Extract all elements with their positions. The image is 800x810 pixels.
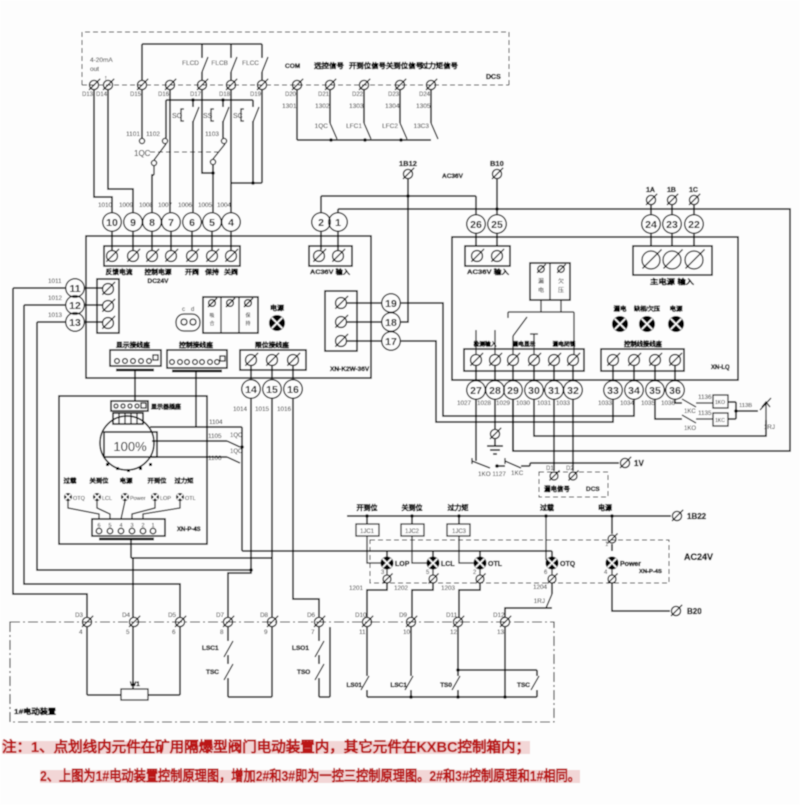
svg-text:1JC3: 1JC3 <box>452 529 467 535</box>
panel common wire down to D4 <box>130 539 132 558</box>
svg-text:限位接线座: 限位接线座 <box>255 340 290 349</box>
switch FLCB <box>230 44 232 58</box>
wire 1QC output to terminal 8 <box>153 166 155 175</box>
svg-text:4: 4 <box>79 629 83 636</box>
LED OTQ <box>64 493 72 501</box>
svg-text:1305: 1305 <box>416 103 431 110</box>
svg-text:AC36V: AC36V <box>442 173 464 180</box>
svg-text:5: 5 <box>126 629 130 636</box>
svg-text:113B: 113B <box>739 403 752 409</box>
switch FLCC <box>261 44 263 58</box>
svg-text:开阀: 开阀 <box>185 267 200 276</box>
svg-text:13C3: 13C3 <box>413 123 429 130</box>
ground symbol <box>494 439 496 446</box>
svg-text:D1: D1 <box>546 466 554 472</box>
svg-text:1033: 1033 <box>556 400 571 407</box>
svg-text:D10: D10 <box>355 612 367 619</box>
svg-text:注：1、点划线内元件在矿用隔爆型阀门电动装置内，其它元件在K: 注：1、点划线内元件在矿用隔爆型阀门电动装置内，其它元件在KXBC控制箱内； <box>2 738 530 756</box>
svg-text:LSC1: LSC1 <box>202 645 219 652</box>
wire 28 to ground <box>494 400 496 429</box>
pushbutton common bus y100 <box>166 99 253 101</box>
svg-text:FLCC: FLCC <box>242 60 259 67</box>
svg-text:1030: 1030 <box>516 400 531 407</box>
svg-text:34: 34 <box>628 385 640 397</box>
svg-text:5: 5 <box>209 217 215 229</box>
LED LCL <box>93 493 101 501</box>
svg-text:LFC2: LFC2 <box>382 123 398 130</box>
wire power lamp to B20 <box>612 583 670 611</box>
svg-text:Power: Power <box>620 561 641 568</box>
svg-text:AC36V 输入: AC36V 输入 <box>310 267 351 276</box>
svg-text:1KC: 1KC <box>684 409 696 415</box>
terminal circle 2 <box>312 213 331 232</box>
wire B10 to circle 25 <box>496 179 498 214</box>
svg-text:1QC: 1QC <box>230 449 243 455</box>
svg-text:1B22: 1B22 <box>687 512 707 521</box>
svg-text:1014: 1014 <box>233 406 248 413</box>
svg-text:控制接线座: 控制接线座 <box>179 340 214 349</box>
terminal D5 <box>175 617 184 626</box>
wire 15 down to D8 <box>271 399 273 617</box>
svg-text:10: 10 <box>106 217 118 229</box>
indication switch TS0 on D11 wire <box>457 627 459 676</box>
terminal D23 <box>395 80 404 89</box>
feedback pot wires from 11 12 13 <box>13 288 87 617</box>
svg-text:1303: 1303 <box>349 103 364 110</box>
svg-text:1: 1 <box>335 217 341 229</box>
terminal circle 19 <box>382 294 401 313</box>
svg-text:1JC1: 1JC1 <box>360 529 375 535</box>
svg-text:2、上图为1#电动装置控制原理图，增加2#和3#即为一控三控: 2、上图为1#电动装置控制原理图，增加2#和3#即为一控三控制原理图。2#和3#… <box>40 767 580 785</box>
svg-text:过力矩: 过力矩 <box>175 477 194 485</box>
LED wires to plug <box>68 501 99 519</box>
svg-text:100%: 100% <box>113 439 147 454</box>
terminal circles 10 9 8 7 6 5 4 <box>103 213 122 232</box>
wire 13 left <box>37 321 65 323</box>
indicator lamp leakage <box>612 316 628 332</box>
svg-text:开到位: 开到位 <box>148 477 167 485</box>
wire 1QC right output to terminal 5 <box>212 165 214 212</box>
actuator dash-dot enclosure 1# motor unit <box>10 622 554 722</box>
svg-text:LCL: LCL <box>102 496 112 502</box>
terminal circle 30 <box>533 366 535 380</box>
switch FLCD <box>201 44 203 58</box>
svg-text:缺相/欠压: 缺相/欠压 <box>634 305 660 313</box>
svg-text:漏电: 漏电 <box>614 305 627 313</box>
svg-text:漏电显示: 漏电显示 <box>513 340 536 348</box>
svg-text:1033: 1033 <box>598 400 613 407</box>
svg-text:19: 19 <box>385 298 397 310</box>
svg-text:1101: 1101 <box>126 131 140 138</box>
terminal circle 36 <box>674 366 676 380</box>
terminal circle 18 <box>382 313 401 332</box>
svg-text:D23: D23 <box>388 92 400 98</box>
meter circle <box>100 416 154 470</box>
relay box 1JC2 <box>410 514 414 518</box>
svg-text:1015: 1015 <box>255 406 270 413</box>
svg-text:保持: 保持 <box>204 267 220 276</box>
svg-text:D13: D13 <box>82 92 94 98</box>
FLC bus wire y44 <box>142 43 262 45</box>
wire 36 to switch 1136 <box>675 400 682 403</box>
terminal circle 33 <box>612 366 614 380</box>
svg-text:XN-K2W-36V: XN-K2W-36V <box>330 366 370 373</box>
terminal D20 <box>292 80 301 89</box>
parallel branch TSC <box>456 668 460 672</box>
lamp LCL <box>427 557 440 570</box>
terminal D11 <box>453 617 462 626</box>
svg-text:1028: 1028 <box>477 400 492 407</box>
terminal D8 <box>267 617 276 626</box>
remote-signal common bus y140 <box>297 139 431 141</box>
wire bus to circle 1 <box>337 209 339 212</box>
svg-text:过力矩: 过力矩 <box>448 503 469 512</box>
terminal D16 <box>165 80 174 89</box>
terminal D3 <box>82 617 91 626</box>
svg-text:1029: 1029 <box>496 400 511 407</box>
terminal D22 <box>359 80 368 89</box>
terminal B20 <box>671 606 680 615</box>
junction to relay coil 1RJ <box>735 402 737 419</box>
svg-text:1RJ: 1RJ <box>534 598 545 605</box>
svg-text:电源: 电源 <box>670 305 683 313</box>
svg-text:1KO: 1KO <box>684 426 696 432</box>
wire D17 joins terminal 5 <box>202 90 213 173</box>
svg-text:12: 12 <box>450 629 458 636</box>
AC36V input block right <box>475 234 477 246</box>
wire 12 left <box>24 304 65 306</box>
svg-text:1203: 1203 <box>441 585 456 592</box>
svg-text:1106: 1106 <box>208 455 222 462</box>
svg-text:1V: 1V <box>634 459 644 468</box>
svg-text:11: 11 <box>359 629 366 636</box>
svg-text:8: 8 <box>149 217 155 229</box>
terminal D4 <box>129 617 138 626</box>
panel cable line <box>99 538 154 540</box>
svg-text:XN-P-4S: XN-P-4S <box>639 569 662 575</box>
1QC common wire down to lamp rail <box>241 427 243 551</box>
AC36V bus L1 y196 <box>321 195 476 197</box>
feed 1JC3 to lamp OTL <box>459 536 474 563</box>
wire 35 to switch 1135 <box>655 400 682 419</box>
svg-text:7: 7 <box>311 629 315 636</box>
svg-text:6: 6 <box>189 217 195 229</box>
svg-text:1KO: 1KO <box>715 400 725 406</box>
svg-text:LSO1: LSO1 <box>292 645 309 652</box>
left terminal strip 3pos <box>97 279 119 333</box>
indicator lamp phase <box>639 316 655 332</box>
terminal circle 29 <box>512 366 514 380</box>
svg-text:关到位: 关到位 <box>402 503 423 512</box>
svg-text:远控信号: 远控信号 <box>314 61 344 70</box>
note underlay shading <box>2 741 530 754</box>
terminal D10 <box>362 617 371 626</box>
pushbutton SS <box>222 100 224 107</box>
svg-text:漏: 漏 <box>538 277 545 285</box>
svg-text:开到位: 开到位 <box>357 503 378 512</box>
svg-text:1KC: 1KC <box>511 470 524 477</box>
terminal circle 16 <box>284 380 303 399</box>
svg-text:D16: D16 <box>158 92 170 98</box>
svg-text:D11: D11 <box>446 612 458 619</box>
relay box 1JC1 <box>365 514 369 518</box>
wire 16 down to D6 <box>293 399 319 617</box>
svg-text:欠: 欠 <box>558 277 565 285</box>
wire D18 to terminal 4 <box>230 90 232 212</box>
switch 1QC remote <box>329 90 331 123</box>
svg-text:out: out <box>90 66 99 73</box>
svg-text:关到位信号: 关到位信号 <box>386 61 423 70</box>
terminal circle 31 <box>553 366 555 380</box>
svg-text:FLCB: FLCB <box>211 60 228 67</box>
wire 29 to big loop - drawn above <box>512 400 514 451</box>
terminal D6 <box>314 617 323 626</box>
svg-text:电: 电 <box>538 286 545 294</box>
svg-text:FLCD: FLCD <box>182 60 199 67</box>
svg-text:压: 压 <box>558 287 565 294</box>
wire bus to circle 2 <box>320 196 322 212</box>
feed 1JC2 to lamp LCL <box>412 536 427 563</box>
svg-text:D21: D21 <box>318 92 330 98</box>
svg-text:W1: W1 <box>130 681 140 688</box>
svg-text:1006: 1006 <box>178 202 193 209</box>
svg-text:1QC: 1QC <box>134 149 151 158</box>
svg-text:TS0: TS0 <box>440 682 452 689</box>
svg-text:D8: D8 <box>260 612 269 619</box>
terminal circle 22 <box>693 205 695 214</box>
leakage relay contact internals <box>475 330 477 354</box>
svg-text:1011: 1011 <box>48 278 62 285</box>
wire D13 to terminal 10 <box>94 90 112 212</box>
svg-text:11: 11 <box>69 283 80 295</box>
svg-text:1027: 1027 <box>457 400 472 407</box>
svg-text:14: 14 <box>245 384 257 396</box>
terminal circle 35 <box>654 366 656 380</box>
svg-text:1136: 1136 <box>698 394 712 401</box>
svg-text:4-20mA: 4-20mA <box>90 57 113 64</box>
svg-text:控制线接线座: 控制线接线座 <box>624 339 662 348</box>
svg-text:持: 持 <box>246 320 251 327</box>
svg-text:D22: D22 <box>352 92 364 98</box>
svg-text:1201: 1201 <box>349 585 364 592</box>
svg-text:D2: D2 <box>566 466 574 472</box>
svg-text:1007: 1007 <box>158 202 173 209</box>
svg-text:D3: D3 <box>75 612 84 619</box>
svg-text:18: 18 <box>385 317 397 329</box>
svg-text:DC24V: DC24V <box>148 278 170 285</box>
bus y558 to D8 wire <box>131 557 272 559</box>
svg-text:1036: 1036 <box>661 400 676 407</box>
svg-text:漏电信号: 漏电信号 <box>544 484 571 493</box>
svg-text:OTL: OTL <box>185 496 196 502</box>
pushbutton SO <box>192 100 194 107</box>
svg-text:LS01: LS01 <box>346 682 362 689</box>
svg-text:27: 27 <box>470 385 482 397</box>
svg-text:1012: 1012 <box>48 295 63 302</box>
display plug lower <box>113 413 143 424</box>
svg-text:1135: 1135 <box>698 410 712 417</box>
svg-text:9: 9 <box>264 629 268 636</box>
svg-text:DCS: DCS <box>586 486 600 493</box>
terminal circle 24 <box>650 205 652 214</box>
terminal circle 1 <box>329 213 348 232</box>
svg-text:1013: 1013 <box>48 312 63 319</box>
terminal D18 <box>226 80 235 89</box>
svg-text:1035: 1035 <box>641 400 656 407</box>
svg-text:控制电源: 控制电源 <box>145 267 173 276</box>
terminal circle 26 <box>467 215 486 234</box>
svg-text:COM: COM <box>285 63 300 70</box>
svg-text:1004: 1004 <box>217 202 232 209</box>
svg-text:1KC: 1KC <box>715 418 725 424</box>
feed overload to lamp OTQ <box>544 514 548 518</box>
svg-text:电源: 电源 <box>120 477 133 485</box>
svg-text:DCS: DCS <box>486 74 501 81</box>
switch 1KO 1127 and 1KC to 1V <box>471 458 473 464</box>
svg-text:D15: D15 <box>130 92 142 98</box>
svg-text:Power: Power <box>130 496 146 502</box>
svg-text:1034: 1034 <box>620 400 635 407</box>
LED LOP <box>151 493 159 501</box>
terminal D7 <box>223 617 232 626</box>
controller box XN-K2W-36V <box>86 236 371 378</box>
svg-text:LCL: LCL <box>441 561 455 568</box>
indication switch LSC1 on D9 wire <box>410 627 412 676</box>
terminal D14 <box>103 80 112 89</box>
svg-text:12: 12 <box>69 300 81 312</box>
terminal circle 14 <box>242 380 261 399</box>
svg-text:4: 4 <box>228 217 234 229</box>
right terminal strip 3pos <box>325 291 357 351</box>
svg-text:30: 30 <box>528 385 540 397</box>
switch 13C3 <box>430 90 432 123</box>
wire D15 to 1QC contact, wire 1101 <box>141 90 143 138</box>
terminal D13 <box>89 80 98 89</box>
relay contact 1QC right pair <box>221 138 226 143</box>
svg-text:D18: D18 <box>219 92 231 98</box>
svg-text:电源: 电源 <box>598 503 612 512</box>
interlock box 1KO <box>713 395 728 408</box>
terminal D21 <box>325 80 334 89</box>
wire LSC1 chain to D8 <box>228 696 272 698</box>
wire D20 COM riser down <box>296 90 298 140</box>
DCS interface dashed enclosure <box>82 32 509 85</box>
svg-text:D5: D5 <box>168 612 177 619</box>
wire 30 to relay 1RJ coil <box>534 400 766 436</box>
panel plug strip <box>92 519 165 536</box>
svg-text:D12: D12 <box>493 612 505 619</box>
svg-text:23: 23 <box>666 219 678 231</box>
svg-text:1104: 1104 <box>209 419 223 426</box>
svg-text:29: 29 <box>507 385 519 397</box>
svg-text:33: 33 <box>607 385 619 397</box>
svg-text:1304: 1304 <box>385 103 400 110</box>
svg-text:TSO: TSO <box>297 669 310 676</box>
terminal circle 17 <box>382 332 401 351</box>
terminal circle 23 <box>671 205 673 214</box>
LCD 100% <box>104 432 157 457</box>
wire 11 left <box>13 287 65 289</box>
svg-text:B10: B10 <box>490 159 504 168</box>
svg-text:28: 28 <box>489 385 501 397</box>
svg-text:D7: D7 <box>216 612 225 619</box>
svg-text:1105: 1105 <box>208 433 222 440</box>
svg-text:1KO 1127: 1KO 1127 <box>478 471 506 478</box>
svg-text:17: 17 <box>385 336 397 348</box>
terminal circle 15 <box>263 380 282 399</box>
svg-text:1010: 1010 <box>98 202 113 209</box>
terminal 1V <box>620 458 629 467</box>
svg-text:1204: 1204 <box>533 584 548 591</box>
svg-text:D4: D4 <box>122 612 131 619</box>
svg-text:13: 13 <box>69 317 81 329</box>
svg-text:35: 35 <box>649 385 661 397</box>
limit switch LSC1 <box>227 627 229 641</box>
terminal circle 27 <box>475 366 477 380</box>
svg-text:B20: B20 <box>687 607 702 616</box>
svg-text:24: 24 <box>645 219 657 231</box>
display plug 显示器插座 <box>111 401 148 411</box>
svg-text:d: d <box>191 307 194 313</box>
interlock box 1KC <box>713 413 728 426</box>
svg-text:过载: 过载 <box>540 503 554 512</box>
svg-text:TSC: TSC <box>206 669 219 676</box>
relay contact 1QC left pair <box>139 138 144 143</box>
AC24V bus 1B22 <box>347 515 671 517</box>
svg-text:1B: 1B <box>667 187 676 194</box>
svg-text:OTL: OTL <box>488 561 503 568</box>
wire D19 down joining SC output <box>261 90 263 183</box>
svg-text:13: 13 <box>497 629 505 636</box>
leakage undervoltage block <box>530 263 570 300</box>
lamp LOP <box>381 557 394 570</box>
leakage signal DCS dashed box <box>539 472 608 497</box>
terminal D9 <box>406 617 415 626</box>
svg-text:6: 6 <box>172 629 176 636</box>
terminal 1B22 <box>672 511 681 520</box>
svg-text:吸: 吸 <box>210 313 215 319</box>
svg-text:关到位: 关到位 <box>90 477 109 485</box>
indicator lamp power <box>668 316 684 332</box>
svg-text:主电源 输入: 主电源 输入 <box>650 277 694 286</box>
terminal D24 <box>426 80 435 89</box>
svg-text:1301: 1301 <box>282 103 297 110</box>
wire LSO1 chain return <box>319 696 330 698</box>
svg-text:漏电闭锁: 漏电闭锁 <box>553 340 576 348</box>
svg-text:1102: 1102 <box>146 131 160 138</box>
wire D16 to terminal 7 <box>169 90 171 212</box>
lamp OTL <box>474 557 487 570</box>
terminal circle 34 <box>633 366 635 380</box>
relay coil 1RJ <box>765 403 767 420</box>
lamp bottom terminals <box>386 569 388 575</box>
svg-text:D17: D17 <box>190 92 202 98</box>
wire 32 to D2 <box>572 400 574 471</box>
svg-text:LSC1: LSC1 <box>390 682 407 689</box>
svg-text:1QC: 1QC <box>230 433 243 439</box>
wire 14 down to D7 <box>228 399 251 617</box>
terminal D12 <box>500 617 509 626</box>
svg-text:8: 8 <box>220 629 224 636</box>
indication switch LS01 on D10 wire <box>366 627 368 676</box>
svg-text:1008: 1008 <box>139 202 154 209</box>
connector c d <box>176 314 200 331</box>
svg-text:1016: 1016 <box>277 406 292 413</box>
svg-text:D20: D20 <box>285 92 297 98</box>
wire bus to circle 26 <box>475 196 477 214</box>
svg-text:LFC1: LFC1 <box>346 123 362 130</box>
svg-text:25: 25 <box>491 219 503 231</box>
